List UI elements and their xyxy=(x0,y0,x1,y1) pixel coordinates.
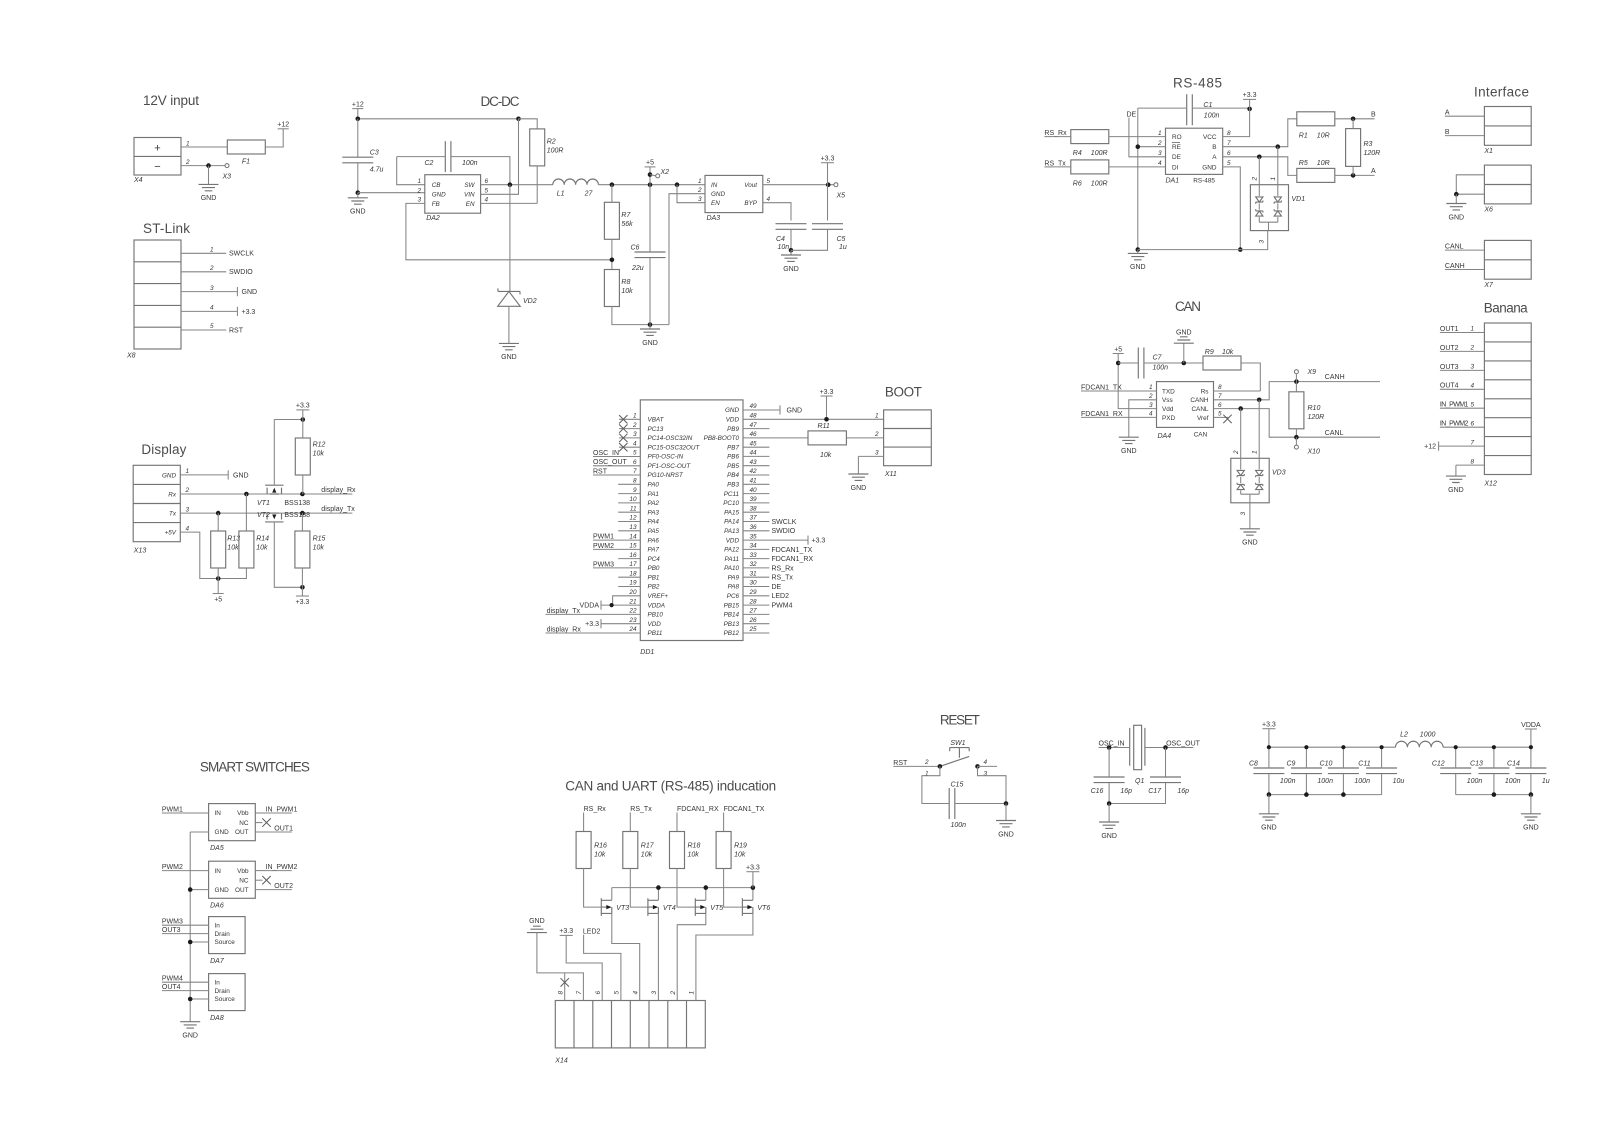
net label FDCAN1_RX xyxy=(1081,411,1157,418)
svg-text:4: 4 xyxy=(984,759,988,766)
capacitor C7 xyxy=(1138,348,1144,379)
ground xyxy=(781,255,801,273)
svg-text:PA15: PA15 xyxy=(724,509,739,516)
svg-text:+3.3: +3.3 xyxy=(295,599,309,606)
DD1 pin 27 PB14 xyxy=(724,608,770,619)
svg-text:X7: X7 xyxy=(1483,282,1494,289)
junction xyxy=(516,117,521,122)
wire xyxy=(922,766,949,803)
DD1 pin 40 PC11 xyxy=(724,487,770,498)
DD1 pin 16 PC4 xyxy=(618,552,660,563)
wire xyxy=(649,325,651,329)
svg-text:RS_Tx: RS_Tx xyxy=(1044,160,1066,167)
ground xyxy=(1174,330,1194,344)
svg-text:5: 5 xyxy=(614,991,621,995)
wire xyxy=(537,933,584,1001)
svg-text:+: + xyxy=(154,143,160,155)
junction xyxy=(508,182,513,187)
resistor R18 xyxy=(670,832,701,869)
svg-text:+3.3: +3.3 xyxy=(585,621,599,628)
capacitor C4 labels xyxy=(776,236,789,251)
svg-text:EN: EN xyxy=(711,200,720,207)
svg-text:RS_Rx: RS_Rx xyxy=(1044,130,1067,137)
wire xyxy=(1455,747,1457,794)
wire xyxy=(255,889,274,891)
net label OSC_OUT xyxy=(1145,740,1201,747)
svg-text:R7: R7 xyxy=(621,212,631,219)
svg-text:10k: 10k xyxy=(734,852,746,859)
svg-text:IN: IN xyxy=(215,810,222,817)
svg-text:+3.3: +3.3 xyxy=(296,403,310,410)
junction xyxy=(975,764,980,769)
svg-text:VDDA: VDDA xyxy=(1521,722,1541,729)
svg-text:100n: 100n xyxy=(462,160,478,167)
wire xyxy=(649,167,651,185)
svg-text:VREF+: VREF+ xyxy=(648,593,669,600)
crystal Q1 xyxy=(1130,725,1145,785)
svg-text:C16: C16 xyxy=(1091,788,1104,795)
DD1 pin 44 PB6 xyxy=(727,450,769,461)
svg-text:R8: R8 xyxy=(621,279,630,286)
capacitor C17 xyxy=(1150,777,1181,783)
svg-text:GND: GND xyxy=(242,289,258,296)
wire xyxy=(217,579,219,594)
wire xyxy=(245,494,247,531)
svg-text:5: 5 xyxy=(485,188,489,195)
svg-text:PB13: PB13 xyxy=(724,621,740,628)
svg-text:IN_PWM2: IN_PWM2 xyxy=(266,864,298,871)
wire xyxy=(217,568,219,579)
DA1 pin 3 DE xyxy=(1158,150,1181,161)
connector X12 xyxy=(1483,323,1531,488)
svg-text:10n: 10n xyxy=(778,244,790,251)
connector X7 xyxy=(1483,240,1531,288)
svg-text:IN: IN xyxy=(711,182,718,189)
DD1 pin 14 PA6 net PWM1 xyxy=(593,533,659,544)
capacitor C7 labels xyxy=(1153,355,1169,372)
DA4 pin 4 PXD xyxy=(1149,411,1176,422)
wire xyxy=(827,163,829,185)
svg-text:FDCAN1_TX: FDCAN1_TX xyxy=(772,547,813,554)
capacitor C5 xyxy=(812,224,843,230)
junction xyxy=(300,511,305,516)
svg-text:VDD: VDD xyxy=(726,417,740,424)
svg-text:B: B xyxy=(1445,129,1450,136)
wire xyxy=(1493,747,1495,794)
svg-text:X2: X2 xyxy=(660,169,670,176)
svg-text:17: 17 xyxy=(629,561,637,568)
svg-text:PXD: PXD xyxy=(1162,415,1176,422)
svg-text:PB11: PB11 xyxy=(648,630,663,637)
DD1 pin 35 VDD tied +3.3 xyxy=(726,533,826,544)
junction xyxy=(1341,745,1345,749)
svg-text:PA11: PA11 xyxy=(725,556,739,563)
IC DA1 xyxy=(1166,128,1223,184)
svg-text:R11: R11 xyxy=(818,423,830,430)
wire (VT4 source) xyxy=(657,913,659,1000)
junction xyxy=(1116,361,1121,366)
junction xyxy=(1107,745,1112,750)
net label LED2 xyxy=(583,928,621,1000)
junction xyxy=(1341,792,1346,797)
net label FDCAN1_TX xyxy=(1081,384,1157,391)
svg-text:R17: R17 xyxy=(641,843,655,850)
svg-text:48: 48 xyxy=(750,413,758,420)
wire xyxy=(481,119,519,195)
power +3.3 xyxy=(295,596,309,606)
DD1 pin 18 PB1 xyxy=(618,570,659,581)
svg-text:5: 5 xyxy=(1218,411,1222,418)
DD1 pin 26 PB13 xyxy=(724,617,770,628)
svg-text:X8: X8 xyxy=(126,353,136,360)
X12 pin 3 OUT3 xyxy=(1440,364,1485,371)
svg-text:X12: X12 xyxy=(1483,481,1497,488)
svg-text:22: 22 xyxy=(628,608,637,615)
svg-text:2: 2 xyxy=(1157,140,1162,147)
svg-text:Rx: Rx xyxy=(168,491,177,498)
svg-text:Q1: Q1 xyxy=(1135,778,1144,785)
svg-text:R4: R4 xyxy=(1073,150,1082,157)
svg-text:29: 29 xyxy=(749,589,758,596)
svg-text:35: 35 xyxy=(750,533,758,540)
svg-text:2: 2 xyxy=(185,159,190,166)
svg-text:PB7: PB7 xyxy=(727,444,739,451)
svg-text:100R: 100R xyxy=(1091,150,1108,157)
junction xyxy=(1163,745,1168,750)
svg-text:CAN: CAN xyxy=(1175,299,1201,314)
svg-text:PB1: PB1 xyxy=(648,574,660,581)
wire xyxy=(1005,804,1007,821)
inductor L2 xyxy=(1396,731,1444,747)
wire xyxy=(1249,99,1251,109)
wire (VT6 source) xyxy=(696,913,753,1000)
svg-text:CANL: CANL xyxy=(1445,244,1464,251)
TVS diode array VD3 xyxy=(1231,458,1286,503)
wire xyxy=(978,766,1007,803)
svg-text:38: 38 xyxy=(750,505,758,512)
DA2 pin 6 SW xyxy=(464,178,488,189)
svg-text:R18: R18 xyxy=(688,843,701,850)
wire xyxy=(357,119,359,157)
wire xyxy=(301,568,303,587)
svg-text:43: 43 xyxy=(750,459,758,466)
svg-text:10k: 10k xyxy=(1222,349,1234,356)
wire xyxy=(611,239,613,269)
svg-text:C7: C7 xyxy=(1153,355,1163,362)
wire xyxy=(1295,374,1297,382)
svg-text:RS_Rx: RS_Rx xyxy=(772,565,795,572)
svg-text:PA10: PA10 xyxy=(724,565,739,572)
wire xyxy=(1352,166,1354,175)
svg-text:+3.3: +3.3 xyxy=(1262,722,1276,729)
svg-text:PWM2: PWM2 xyxy=(162,864,183,871)
wire xyxy=(612,887,753,889)
svg-text:31: 31 xyxy=(750,570,758,577)
svg-text:4: 4 xyxy=(1158,160,1162,167)
DD1 pin 49 GND tied GND xyxy=(725,403,802,414)
wire xyxy=(598,184,705,186)
svg-text:RE: RE xyxy=(1172,144,1181,151)
svg-text:39: 39 xyxy=(750,496,758,503)
svg-text:DE: DE xyxy=(772,584,782,591)
svg-text:PB6: PB6 xyxy=(727,454,739,461)
svg-text:15: 15 xyxy=(629,543,637,550)
DA1 pin 2 RE xyxy=(1157,140,1181,151)
svg-text:100n: 100n xyxy=(1505,778,1521,785)
capacitor C3 xyxy=(342,150,383,174)
svg-text:PA3: PA3 xyxy=(648,509,660,516)
svg-text:1u: 1u xyxy=(839,244,847,251)
wire xyxy=(1335,118,1375,120)
net label OUT1 xyxy=(274,825,293,832)
svg-text:GND: GND xyxy=(215,829,230,836)
junction xyxy=(1238,406,1243,411)
DA1 pin 1 RO xyxy=(1158,130,1182,141)
svg-text:VD2: VD2 xyxy=(523,298,537,305)
wire xyxy=(677,185,705,203)
svg-text:Vdd: Vdd xyxy=(1162,406,1174,413)
svg-text:100n: 100n xyxy=(1467,778,1483,785)
svg-text:GND: GND xyxy=(1202,164,1217,171)
svg-text:PWM4: PWM4 xyxy=(772,603,793,610)
wire xyxy=(1456,175,1484,194)
X11 pin 2 xyxy=(874,431,879,438)
wire xyxy=(1214,409,1381,438)
svg-text:X13: X13 xyxy=(133,548,147,555)
svg-text:OUT4: OUT4 xyxy=(1440,383,1459,390)
junction xyxy=(1492,745,1496,749)
svg-text:GND: GND xyxy=(787,407,803,414)
svg-text:18: 18 xyxy=(629,570,637,577)
svg-text:GND: GND xyxy=(711,191,725,198)
capacitor C14 xyxy=(1507,761,1550,786)
svg-text:6: 6 xyxy=(1471,420,1475,427)
svg-text:−: − xyxy=(154,161,160,173)
X12 pin 8 GND xyxy=(1456,458,1485,476)
wire (gate) xyxy=(584,869,602,908)
svg-text:PF1-OSC-OUT: PF1-OSC-OUT xyxy=(648,463,692,470)
svg-text:VT3: VT3 xyxy=(616,905,629,912)
power +12 xyxy=(277,122,289,129)
svg-text:PA1: PA1 xyxy=(648,491,659,498)
DD1 pin 33 PA11 net FDCAN1_RX xyxy=(725,552,814,563)
DD1 pin 45 PB7 xyxy=(727,440,769,451)
svg-text:GND: GND xyxy=(725,407,739,414)
wire xyxy=(649,258,651,325)
junction xyxy=(1004,801,1009,806)
ground xyxy=(499,343,519,361)
DD1 pin 22 PB10 net display_Tx xyxy=(546,608,664,619)
X13 pin 1 GND xyxy=(162,468,190,479)
junction xyxy=(789,248,794,253)
svg-text:1: 1 xyxy=(633,413,637,420)
svg-text:6: 6 xyxy=(1218,402,1222,409)
svg-text:4: 4 xyxy=(186,525,190,532)
svg-text:2: 2 xyxy=(416,188,421,195)
svg-text:PB8-BOOT0: PB8-BOOT0 xyxy=(704,435,740,442)
wire xyxy=(358,118,519,120)
junction xyxy=(1267,792,1272,797)
svg-text:7: 7 xyxy=(1218,393,1222,400)
wire xyxy=(1165,748,1167,778)
node X5 xyxy=(834,183,838,187)
svg-text:PB4: PB4 xyxy=(727,472,739,479)
wire xyxy=(1129,400,1157,437)
no-connect cross xyxy=(262,818,270,826)
DD1 pin 42 PB4 xyxy=(727,468,769,479)
DD1 pin 9 PA1 xyxy=(618,487,659,498)
junction xyxy=(1136,247,1141,252)
power +12 xyxy=(352,101,364,108)
svg-text:PWM2: PWM2 xyxy=(593,543,614,550)
svg-text:A: A xyxy=(1445,110,1450,117)
wire xyxy=(1214,390,1261,392)
wire xyxy=(302,475,304,494)
svg-text:SMART SWITCHES: SMART SWITCHES xyxy=(200,760,310,775)
svg-text:3: 3 xyxy=(698,196,702,203)
wire xyxy=(189,832,191,1022)
svg-text:1u: 1u xyxy=(1542,778,1550,785)
wire xyxy=(1277,147,1279,185)
wire xyxy=(1109,136,1166,138)
svg-text:OUT4: OUT4 xyxy=(162,984,181,991)
wire xyxy=(509,185,511,292)
svg-text:Vss: Vss xyxy=(1162,397,1173,404)
net label IN_PWM1 xyxy=(266,806,298,813)
svg-text:+12: +12 xyxy=(277,122,289,129)
svg-text:R2: R2 xyxy=(547,138,556,145)
svg-text:A: A xyxy=(1212,154,1217,161)
svg-text:4: 4 xyxy=(767,196,771,203)
net label PWM1 xyxy=(162,806,209,813)
DD1 pin 24 PB11 net display_Rx xyxy=(546,626,663,637)
X8 pin 3 GND xyxy=(181,285,257,296)
svg-text:PA4: PA4 xyxy=(648,519,660,526)
svg-text:IN: IN xyxy=(215,868,222,875)
svg-text:PC15-OSC32OUT: PC15-OSC32OUT xyxy=(648,444,701,451)
DA4 pin 2 Vss xyxy=(1148,393,1173,404)
push button SW1 xyxy=(940,740,969,766)
svg-text:RS_Rx: RS_Rx xyxy=(584,806,607,813)
wire xyxy=(190,941,208,943)
svg-text:3: 3 xyxy=(1259,240,1266,244)
svg-text:9: 9 xyxy=(633,487,637,494)
net label PWM2 xyxy=(162,864,209,871)
svg-text:BSS138: BSS138 xyxy=(284,512,310,519)
wire xyxy=(1118,362,1138,364)
svg-text:FDCAN1_TX: FDCAN1_TX xyxy=(1081,384,1122,391)
svg-text:14: 14 xyxy=(629,533,637,540)
net label OSC_IN xyxy=(1099,740,1130,747)
resistor R8 xyxy=(604,270,633,307)
ground xyxy=(1521,814,1541,832)
IC DA6 xyxy=(209,861,256,910)
svg-text:C6: C6 xyxy=(631,245,640,252)
wire xyxy=(190,998,208,1000)
wire xyxy=(669,194,705,325)
svg-text:PG10-NRST: PG10-NRST xyxy=(648,472,684,479)
svg-text:10k: 10k xyxy=(227,545,239,552)
svg-text:22u: 22u xyxy=(631,265,644,272)
svg-text:X3: X3 xyxy=(222,174,232,181)
svg-text:34: 34 xyxy=(750,543,758,550)
resistor R10 xyxy=(1289,392,1324,429)
svg-text:6: 6 xyxy=(485,178,489,185)
svg-text:19: 19 xyxy=(629,580,637,587)
svg-text:+3.3: +3.3 xyxy=(746,865,760,872)
wire xyxy=(1223,119,1297,147)
svg-text:6: 6 xyxy=(633,459,637,466)
svg-text:VT4: VT4 xyxy=(663,905,676,912)
svg-text:10k: 10k xyxy=(594,852,606,859)
svg-text:ST-Link: ST-Link xyxy=(143,221,190,236)
DD1 pin 31 PA9 net RS_Tx xyxy=(728,570,794,581)
junction xyxy=(675,182,680,187)
X4 pin 2 xyxy=(181,159,206,166)
DD1 pin 20 VREF+ xyxy=(613,589,669,605)
svg-text:10k: 10k xyxy=(641,852,653,859)
wire xyxy=(826,396,828,419)
svg-text:5: 5 xyxy=(633,450,637,457)
svg-text:1: 1 xyxy=(925,771,929,778)
transistor VT1 BSS138 xyxy=(257,485,310,507)
svg-text:RS-485: RS-485 xyxy=(1173,76,1222,91)
svg-text:7: 7 xyxy=(1471,439,1475,446)
svg-text:4: 4 xyxy=(210,305,214,312)
junction xyxy=(1257,398,1262,403)
capacitor C6 xyxy=(635,252,666,258)
junction xyxy=(1380,745,1384,749)
svg-text:VT2: VT2 xyxy=(257,512,270,519)
svg-text:7: 7 xyxy=(576,991,583,995)
svg-text:PWM1: PWM1 xyxy=(162,806,183,813)
wire xyxy=(1530,729,1532,747)
wire xyxy=(255,822,262,824)
svg-text:DA6: DA6 xyxy=(210,903,224,910)
svg-text:41: 41 xyxy=(750,478,758,485)
svg-text:SWDIO: SWDIO xyxy=(229,269,253,276)
junction xyxy=(610,258,615,263)
DA2 pin 1 CB xyxy=(417,178,440,189)
svg-text:B: B xyxy=(1212,144,1216,151)
svg-text:X14: X14 xyxy=(554,1058,568,1065)
IC DA7 xyxy=(209,917,246,966)
junction xyxy=(206,163,211,168)
svg-text:DA7: DA7 xyxy=(210,958,225,965)
junction xyxy=(648,322,653,327)
wire xyxy=(273,420,275,486)
svg-text:A: A xyxy=(1371,168,1376,175)
svg-text:+12: +12 xyxy=(352,101,364,108)
svg-text:30: 30 xyxy=(750,580,758,587)
DD1 pin 1 VBAT (no connect) xyxy=(619,413,665,424)
svg-text:DA2: DA2 xyxy=(426,215,440,222)
svg-text:RS_Tx: RS_Tx xyxy=(772,575,794,582)
svg-text:27: 27 xyxy=(749,608,758,615)
wire xyxy=(1335,174,1375,176)
wire xyxy=(301,587,303,596)
capacitor C16 labels xyxy=(1091,788,1133,795)
svg-text:RST: RST xyxy=(893,760,908,767)
svg-text:2: 2 xyxy=(1470,345,1475,352)
DA4 pin 3 Vdd xyxy=(1149,402,1174,413)
wire xyxy=(1249,503,1251,529)
DD1 pin 15 PA7 net PWM2 xyxy=(593,543,659,554)
svg-text:Vbb: Vbb xyxy=(237,868,249,875)
ground xyxy=(1128,253,1148,271)
svg-text:4: 4 xyxy=(1471,383,1475,390)
svg-text:PB15: PB15 xyxy=(724,602,740,609)
